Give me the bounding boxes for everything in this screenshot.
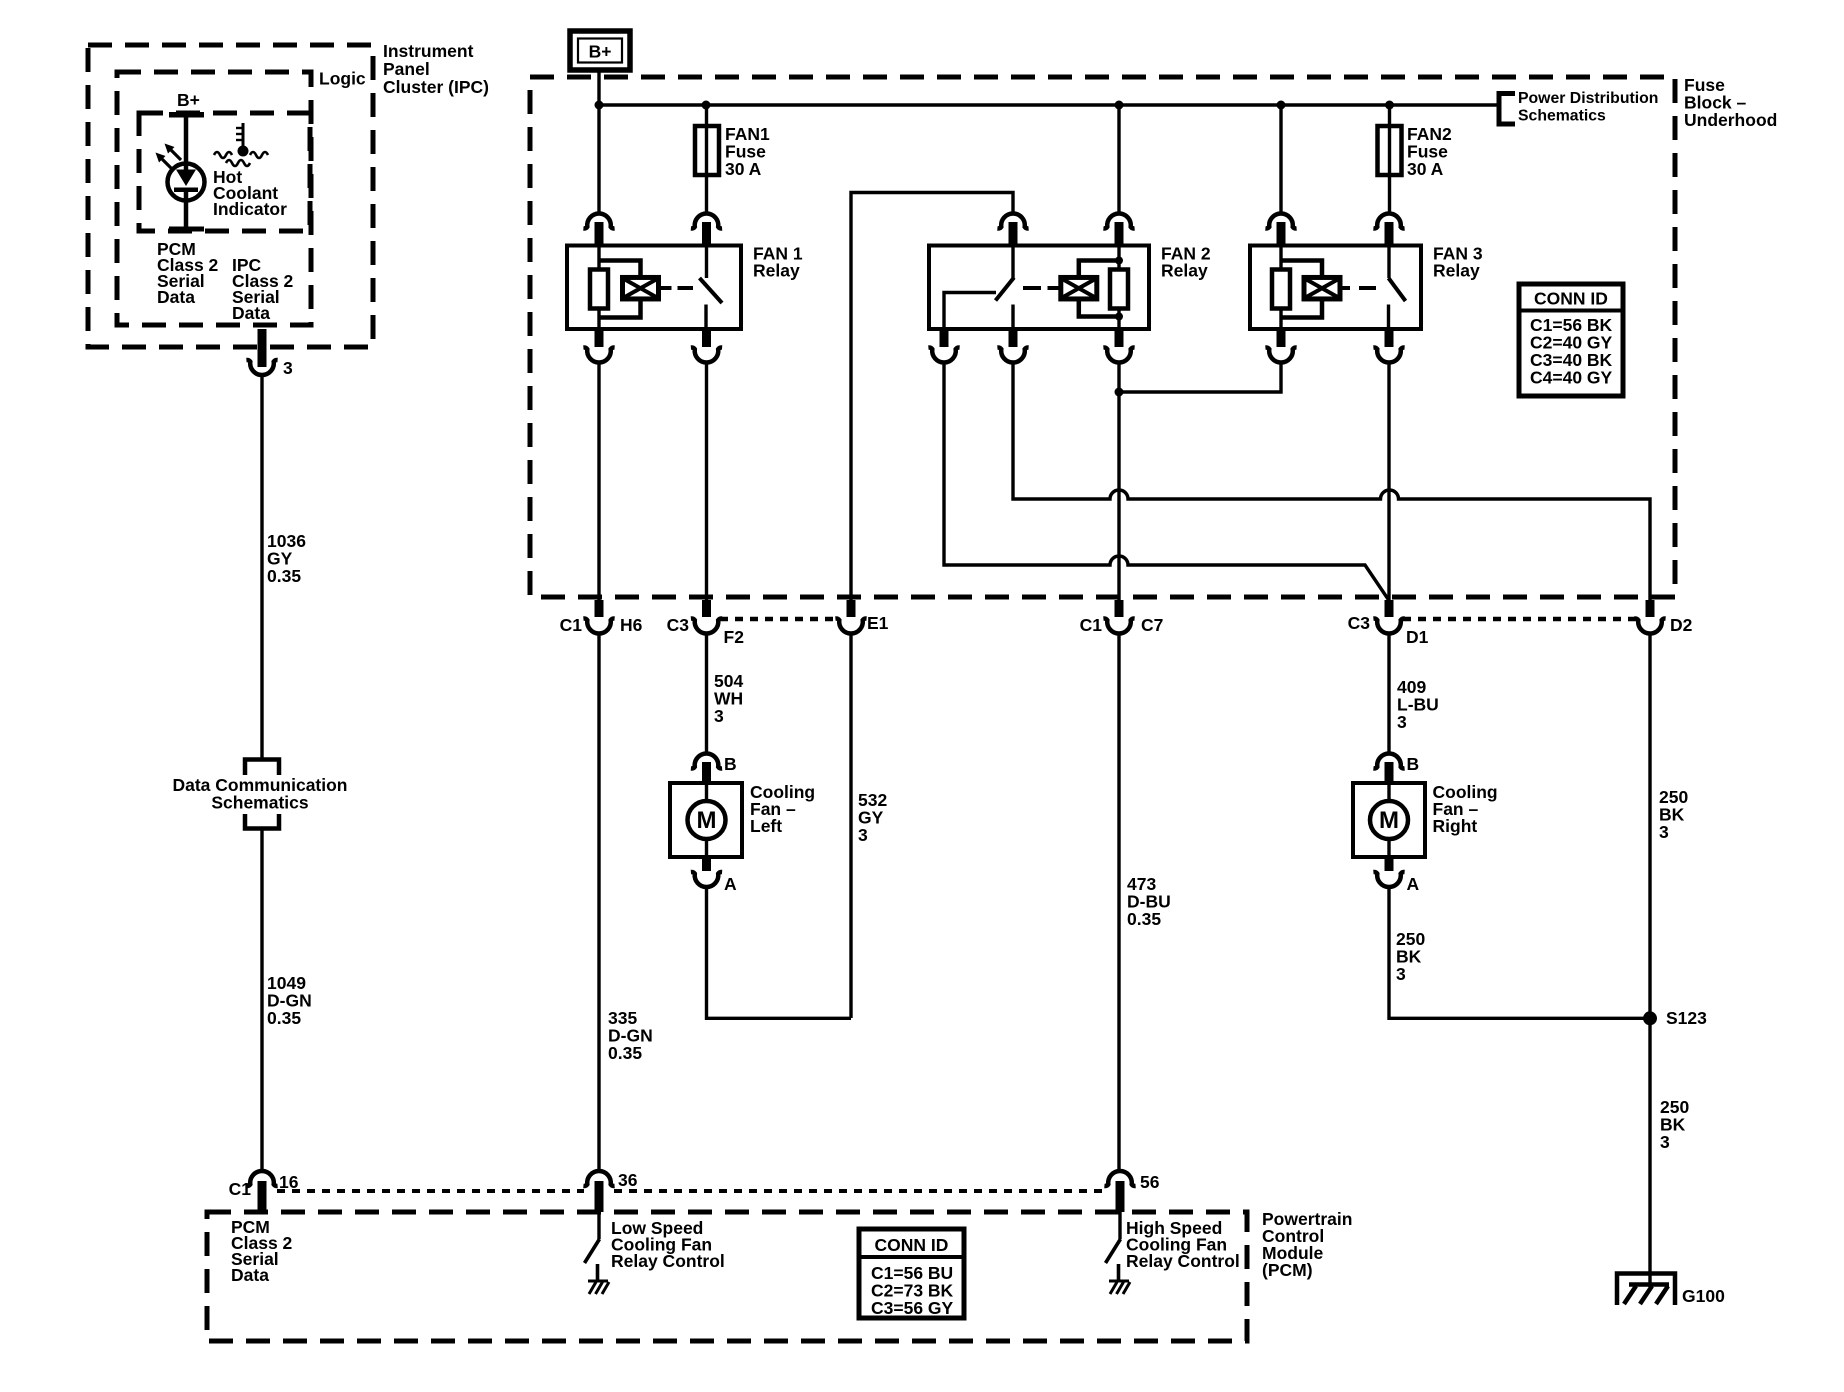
relay FAN 3 box — [1250, 246, 1421, 330]
cooling fan right motor — [1353, 783, 1425, 857]
wire FAN2 switch N.C. to D1 — [944, 362, 1389, 601]
relay FAN 3 switch out pin connector — [1373, 329, 1404, 363]
connector pin 3 of IPC — [246, 329, 293, 378]
Fuse Block - Underhood dashed box — [530, 77, 1675, 597]
svg-text:B+: B+ — [589, 42, 612, 62]
wire FAN3 coil low to junction — [1121, 362, 1281, 393]
junction dot bus at FAN2 coil feed — [1115, 101, 1124, 110]
relay FAN 2 coil solenoid — [1061, 277, 1097, 299]
svg-text:Relay: Relay — [753, 261, 800, 281]
wire 250 BK fan right A to S123 — [1389, 886, 1650, 1018]
fuse FAN2 30A — [1378, 126, 1402, 175]
relay FAN 2 - coil pin connector — [1103, 213, 1134, 246]
wire 335 D-GN to PCM 36 — [597, 633, 600, 1173]
svg-text:3: 3 — [1396, 964, 1406, 984]
svg-text:G100: G100 — [1682, 1286, 1725, 1306]
relay FAN 3 - coil pin connector — [1265, 213, 1296, 246]
svg-text:Relay Control: Relay Control — [1126, 1251, 1240, 1271]
svg-text:B: B — [1407, 754, 1420, 774]
svg-text:C4=40 GY: C4=40 GY — [1530, 368, 1613, 388]
svg-text:M: M — [697, 807, 717, 834]
relay FAN 3 coil bracket top — [1281, 261, 1322, 278]
relay FAN 3 resistor — [1272, 270, 1290, 309]
junction dot coils common — [1115, 388, 1124, 397]
svg-text:3: 3 — [1659, 822, 1669, 842]
wire 250 BK from D2 — [1648, 633, 1651, 1288]
svg-text:(PCM): (PCM) — [1262, 1260, 1313, 1280]
svg-text:3: 3 — [714, 706, 724, 726]
PCM connector dotted line — [277, 1189, 584, 1193]
connector C3 terminal D1 — [1348, 600, 1429, 647]
svg-text:Relay Control: Relay Control — [611, 1251, 725, 1271]
connector C1 pin 16 (PCM serial data) — [229, 1171, 299, 1212]
cooling fan left - connector B — [691, 753, 737, 783]
relay FAN 2 coil bracket top — [1079, 261, 1119, 278]
relay FAN 2 coil bracket bottom — [1079, 299, 1119, 317]
relay FAN 2 switch common pin connector — [997, 329, 1028, 363]
wire pin 56 to high speed switch — [1118, 1212, 1121, 1239]
svg-text:C3: C3 — [667, 615, 690, 635]
CONN ID table (PCM) — [859, 1229, 964, 1318]
wire B+ to indicator lamp — [184, 117, 189, 170]
CONN ID table (fuse block) — [1519, 284, 1623, 396]
svg-text:C1: C1 — [1080, 615, 1103, 635]
battery feed bus wire — [599, 103, 1500, 107]
svg-text:H6: H6 — [620, 615, 643, 635]
relay FAN 2 - switch pin connector — [997, 213, 1028, 246]
svg-text:3: 3 — [283, 358, 293, 378]
svg-text:Logic: Logic — [319, 69, 366, 89]
svg-text:E1: E1 — [867, 613, 889, 633]
svg-text:Relay: Relay — [1433, 261, 1480, 281]
relay FAN 3 coil solenoid — [1304, 277, 1340, 299]
ground - high speed driver (PCM) — [1109, 1281, 1130, 1294]
svg-text:M: M — [1379, 807, 1399, 834]
relay FAN 3 coil wire — [1279, 246, 1282, 271]
relay FAN 2 switch N.C. pin connector — [928, 329, 959, 363]
relay FAN 1 - switch pin connector — [691, 213, 722, 246]
svg-text:3: 3 — [1397, 712, 1407, 732]
svg-text:CONN ID: CONN ID — [875, 1235, 949, 1255]
connector terminal D2 — [1634, 600, 1692, 635]
svg-text:C3: C3 — [1348, 613, 1371, 633]
connector terminal E1 — [835, 600, 888, 634]
svg-text:B: B — [724, 754, 737, 774]
relay FAN 1 coil solenoid — [623, 277, 659, 299]
svg-text:Left: Left — [750, 816, 782, 836]
wire LED to logic box bottom — [169, 192, 204, 232]
wire E1 to FAN2 relay switch feed — [851, 193, 1013, 601]
svg-text:D2: D2 — [1670, 615, 1693, 635]
relay FAN 3 coil bracket bottom — [1281, 299, 1322, 318]
reference Power Distribution Schematics — [1499, 90, 1658, 125]
relay FAN 3 - switch pin connector — [1373, 213, 1404, 246]
relay FAN 2 resistor — [1110, 270, 1128, 309]
svg-text:36: 36 — [618, 1170, 638, 1190]
connector C3 terminal F2 — [667, 600, 745, 647]
junction dot bus at FAN3 coil feed — [1277, 101, 1286, 110]
svg-text:Underhood: Underhood — [1684, 110, 1777, 130]
wire bus to FAN1 fuse and relay switch — [705, 105, 708, 215]
svg-text:C1: C1 — [560, 615, 583, 635]
wire bus to FAN1 relay coil — [597, 105, 600, 215]
high speed cooling fan relay control switch — [1106, 1239, 1121, 1280]
reference Data Communication Schematics — [172, 760, 347, 829]
relay FAN 1 - coil pin connector — [583, 213, 614, 246]
indicator logic dashed box — [139, 113, 310, 231]
relay FAN 1 resistor — [590, 270, 608, 309]
svg-text:Schematics: Schematics — [1518, 108, 1606, 125]
svg-text:Instrument: Instrument — [383, 41, 474, 61]
relay FAN 2 junction dot coil bottom — [1115, 313, 1123, 321]
svg-text:0.35: 0.35 — [1127, 909, 1161, 929]
junction dot bus at FAN1 fuse — [702, 101, 711, 110]
svg-text:Power Distribution: Power Distribution — [1518, 90, 1658, 107]
wire FAN2 coil low to C7 — [1117, 362, 1120, 602]
svg-text:Schematics: Schematics — [211, 793, 309, 813]
wire B+ to bus — [597, 70, 600, 105]
wire bus to FAN2 relay coil — [1117, 105, 1120, 215]
hot coolant indicator LED — [156, 144, 205, 201]
relay FAN 2 junction dot coil top — [1115, 257, 1123, 265]
svg-text:Data: Data — [232, 303, 270, 323]
svg-text:3: 3 — [1660, 1132, 1670, 1152]
svg-text:0.35: 0.35 — [608, 1043, 642, 1063]
cooling fan right - connector A — [1373, 857, 1419, 894]
svg-text:B+: B+ — [177, 90, 200, 110]
dotted connector link F2-E1 — [720, 617, 837, 622]
connector C1 terminal C7 — [1080, 600, 1164, 635]
cooling fan right - connector B — [1373, 753, 1419, 783]
relay FAN 1 coil wire — [597, 246, 600, 271]
svg-text:0.35: 0.35 — [267, 566, 301, 586]
coolant temperature icon — [214, 123, 268, 166]
Logic dashed box — [117, 72, 311, 325]
wire bus to FAN2 fuse and FAN3 relay switch — [1388, 105, 1391, 215]
svg-text:D1: D1 — [1406, 627, 1429, 647]
svg-text:30 A: 30 A — [725, 159, 762, 179]
junction dot bus at FAN1 coil feed — [595, 101, 604, 110]
relay FAN 3 coil low pin connector — [1265, 329, 1296, 363]
relay FAN 1 actuating link — [659, 286, 672, 290]
svg-text:3: 3 — [858, 825, 868, 845]
svg-text:Relay: Relay — [1161, 261, 1208, 281]
svg-text:C3=56 GY: C3=56 GY — [871, 1298, 954, 1318]
svg-text:Data: Data — [231, 1265, 269, 1285]
ground G100 — [1617, 1274, 1725, 1307]
wire pin 36 to low speed switch — [597, 1212, 600, 1239]
wire 532 GY fan left A to E1 — [707, 886, 852, 1018]
junction dot bus at FAN2 fuse — [1385, 101, 1394, 110]
relay FAN 1 switch out pin connector — [691, 329, 722, 363]
svg-text:0.35: 0.35 — [267, 1008, 301, 1028]
relay FAN 3 actuating link — [1340, 286, 1350, 290]
relay FAN 2 box — [929, 246, 1149, 330]
relay FAN 1 switch — [700, 246, 723, 330]
svg-text:C7: C7 — [1141, 615, 1163, 635]
svg-text:F2: F2 — [724, 627, 745, 647]
relay FAN 2 coil wire — [1117, 246, 1120, 271]
cooling fan left motor — [670, 783, 742, 857]
wire FAN2 switch common to D2 — [1013, 362, 1650, 602]
relay FAN 2 switch — [996, 246, 1015, 330]
svg-text:Cluster (IPC): Cluster (IPC) — [383, 77, 489, 97]
wire 1036 GY from IPC — [260, 374, 263, 758]
svg-text:30 A: 30 A — [1407, 159, 1444, 179]
cooling fan left - connector A — [691, 857, 737, 894]
svg-text:Indicator: Indicator — [213, 199, 287, 219]
svg-text:Data: Data — [157, 287, 195, 307]
relay FAN 1 coil low pin connector — [583, 329, 614, 363]
node B+ (IPC logic) — [169, 90, 204, 118]
Powertrain Control Module (PCM) dashed box — [207, 1212, 1247, 1341]
relay FAN 1 coil bracket top — [599, 261, 641, 278]
relay FAN 2 actuating link — [1023, 286, 1041, 290]
connector pin 56 (PCM) — [1104, 1171, 1159, 1212]
wire FAN3 switch out to D1 — [1387, 362, 1390, 602]
splice S123 — [1643, 1008, 1707, 1028]
svg-text:S123: S123 — [1666, 1008, 1707, 1028]
wire FAN1 switch out to F2 — [705, 362, 708, 602]
wire 504 WH to left fan — [705, 633, 708, 755]
svg-text:A: A — [1407, 874, 1420, 894]
power node B+ box — [570, 31, 630, 70]
dotted connector link D1-D2 — [1403, 617, 1636, 622]
connector pin 36 (PCM) — [583, 1170, 637, 1212]
svg-text:A: A — [724, 874, 737, 894]
relay FAN 1 coil bracket bottom — [599, 299, 641, 318]
relay FAN 3 switch — [1389, 246, 1406, 330]
svg-text:Panel: Panel — [383, 59, 430, 79]
ground - low speed driver (PCM) — [588, 1281, 609, 1294]
wire bus to FAN3 relay coil — [1279, 105, 1282, 215]
svg-text:CONN ID: CONN ID — [1534, 289, 1608, 309]
wire FAN1 coil low to H6 — [597, 362, 600, 602]
low speed cooling fan relay control switch — [585, 1239, 600, 1280]
relay FAN 1 box — [567, 246, 741, 330]
wire 1049 D-GN to PCM — [260, 830, 263, 1172]
wire 473 D-BU to PCM 56 — [1117, 633, 1120, 1173]
fuse FAN1 30A — [695, 126, 719, 175]
relay FAN 2 switch N.C. wire — [944, 293, 996, 330]
relay FAN 2 coil low pin connector — [1103, 329, 1134, 363]
svg-text:Right: Right — [1433, 816, 1478, 836]
svg-text:56: 56 — [1140, 1172, 1160, 1192]
svg-text:C1: C1 — [229, 1179, 252, 1199]
Instrument Panel Cluster (IPC) dashed box — [88, 45, 373, 347]
connector C1 terminal H6 — [560, 600, 643, 635]
wire 409 L-BU to right fan — [1387, 633, 1390, 755]
